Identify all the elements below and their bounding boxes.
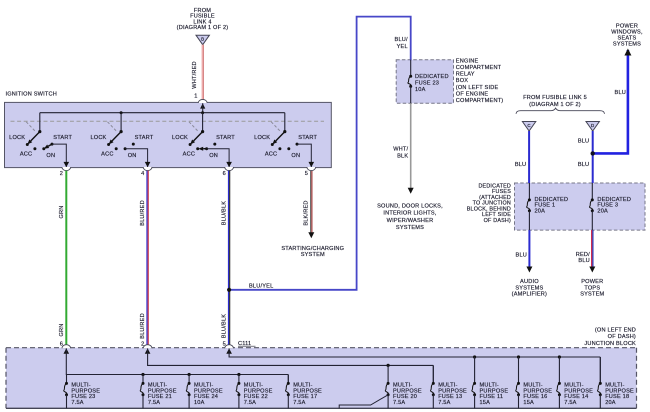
svg-text:LOCK: LOCK	[9, 135, 25, 141]
svg-text:20A: 20A	[535, 208, 546, 214]
svg-text:BLU: BLU	[578, 138, 589, 144]
svg-text:FROM FUSIBLE LINK 5: FROM FUSIBLE LINK 5	[523, 95, 587, 101]
svg-text:WINDOWS,: WINDOWS,	[611, 29, 643, 35]
svg-text:LOCK: LOCK	[90, 135, 106, 141]
svg-text:COMPARTMENT): COMPARTMENT)	[456, 98, 504, 104]
svg-text:BLU: BLU	[515, 162, 526, 168]
svg-text:SYSTEMS: SYSTEMS	[613, 42, 641, 48]
svg-text:BLU: BLU	[578, 258, 589, 264]
svg-text:BLU/RED: BLU/RED	[140, 313, 146, 339]
svg-text:7.5A: 7.5A	[293, 400, 305, 406]
svg-text:START: START	[298, 135, 317, 141]
svg-text:IGNITION SWITCH: IGNITION SWITCH	[6, 92, 57, 98]
svg-text:ON: ON	[46, 153, 55, 159]
svg-text:BLU: BLU	[516, 252, 527, 258]
svg-text:POWER: POWER	[581, 279, 603, 285]
svg-text:D: D	[591, 123, 594, 128]
svg-text:OF DASH): OF DASH)	[484, 218, 511, 224]
svg-text:LOCK: LOCK	[254, 135, 270, 141]
svg-text:ACC: ACC	[101, 152, 113, 158]
svg-text:(DIAGRAM 1 OF 2): (DIAGRAM 1 OF 2)	[529, 102, 581, 108]
svg-text:BLK/RED: BLK/RED	[304, 200, 310, 225]
svg-text:START: START	[135, 135, 154, 141]
svg-text:7.5A: 7.5A	[71, 400, 83, 406]
svg-text:(ON LEFT SIDE: (ON LEFT SIDE	[456, 85, 499, 91]
svg-text:BLU: BLU	[578, 162, 589, 168]
svg-text:WHT/: WHT/	[393, 146, 408, 152]
svg-text:DEDICATED: DEDICATED	[415, 74, 449, 80]
svg-text:5: 5	[223, 341, 226, 347]
svg-text:ENGINE: ENGINE	[456, 58, 479, 64]
svg-text:B: B	[201, 37, 204, 42]
svg-text:(AMPLIFIER): (AMPLIFIER)	[512, 291, 547, 297]
svg-text:7.5A: 7.5A	[244, 400, 256, 406]
svg-text:POWER: POWER	[616, 23, 638, 29]
svg-text:BLU/BLK: BLU/BLK	[222, 314, 228, 338]
svg-text:(ON LEFT END: (ON LEFT END	[595, 328, 636, 334]
svg-text:OF DASH): OF DASH)	[608, 334, 636, 340]
svg-text:FUSE 23: FUSE 23	[415, 81, 439, 87]
svg-text:SEATS: SEATS	[618, 36, 637, 42]
svg-text:SYSTEM: SYSTEM	[301, 252, 325, 258]
svg-text:7.5A: 7.5A	[393, 400, 405, 406]
svg-text:SYSTEMS: SYSTEMS	[396, 225, 424, 231]
svg-text:RED/: RED/	[576, 252, 590, 258]
svg-text:ON: ON	[209, 153, 218, 159]
svg-text:BLU/RED: BLU/RED	[140, 200, 146, 226]
svg-text:7.5A: 7.5A	[564, 400, 576, 406]
svg-text:SOUND, DOOR LOCKS,: SOUND, DOOR LOCKS,	[377, 203, 443, 209]
svg-text:10A: 10A	[194, 400, 205, 406]
svg-text:6: 6	[223, 171, 226, 177]
svg-text:GRN: GRN	[59, 323, 65, 336]
svg-text:WHT/RED: WHT/RED	[192, 61, 198, 89]
svg-text:ON: ON	[128, 153, 137, 159]
svg-text:ACC: ACC	[183, 152, 195, 158]
svg-text:1: 1	[194, 94, 197, 100]
svg-text:5: 5	[305, 171, 308, 177]
svg-text:WIPER/WASHER: WIPER/WASHER	[387, 218, 434, 224]
svg-text:COMPARTMENT: COMPARTMENT	[456, 65, 502, 71]
svg-text:20A: 20A	[597, 208, 608, 214]
svg-text:ON: ON	[291, 153, 300, 159]
svg-text:BLU: BLU	[615, 90, 626, 96]
svg-text:BLU/: BLU/	[395, 37, 408, 43]
svg-text:START: START	[53, 135, 72, 141]
svg-text:C: C	[527, 123, 530, 128]
svg-text:2: 2	[60, 171, 63, 177]
svg-text:INTERIOR LIGHTS,: INTERIOR LIGHTS,	[383, 211, 436, 217]
svg-text:START: START	[216, 135, 235, 141]
svg-text:BLU/BLK: BLU/BLK	[222, 201, 228, 225]
svg-text:BOX: BOX	[456, 78, 468, 84]
svg-text:BLU/YEL: BLU/YEL	[249, 283, 273, 289]
svg-text:LOCK: LOCK	[172, 135, 188, 141]
svg-text:ACC: ACC	[265, 152, 277, 158]
svg-text:2: 2	[141, 341, 144, 347]
svg-text:15A: 15A	[480, 400, 491, 406]
svg-text:YEL: YEL	[397, 44, 408, 50]
svg-text:6: 6	[60, 341, 63, 347]
svg-text:SYSTEMS: SYSTEMS	[515, 285, 543, 291]
svg-text:(DIAGRAM 1 OF 2): (DIAGRAM 1 OF 2)	[177, 25, 229, 31]
svg-text:SYSTEM: SYSTEM	[580, 291, 604, 297]
svg-text:OF ENGINE: OF ENGINE	[456, 91, 489, 97]
svg-text:TOPS: TOPS	[584, 285, 600, 291]
svg-text:7.5A: 7.5A	[148, 400, 160, 406]
svg-text:JUNCTION BLOCK: JUNCTION BLOCK	[584, 341, 636, 347]
svg-text:4: 4	[141, 171, 144, 177]
svg-text:AUDIO: AUDIO	[520, 279, 539, 285]
svg-text:RELAY: RELAY	[456, 72, 475, 78]
svg-text:ACC: ACC	[20, 152, 32, 158]
svg-text:10A: 10A	[415, 87, 426, 93]
svg-text:7.5A: 7.5A	[438, 400, 450, 406]
svg-text:20A: 20A	[605, 400, 616, 406]
svg-text:BLK: BLK	[397, 153, 408, 159]
svg-text:15A: 15A	[523, 400, 534, 406]
svg-text:GRN: GRN	[59, 205, 65, 218]
